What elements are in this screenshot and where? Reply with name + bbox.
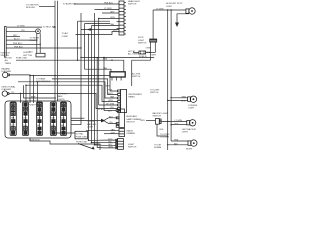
wire backup lamp return: [170, 124, 186, 126]
wire GRY stub: [7, 35, 21, 37]
node label TO LIGHT SWITCH: [150, 89, 160, 94]
node label TO BLWR SW: [63, 3, 76, 5]
wire stop switch right leg: [154, 43, 156, 53]
svg-text:TAN: TAN: [110, 23, 115, 26]
wire below fuse box step: [30, 138, 100, 150]
wire fuse box right exit 2 to splice: [71, 120, 101, 122]
svg-text:PNK: PNK: [108, 90, 113, 92]
svg-text:LT GRN: LT GRN: [104, 8, 112, 10]
svg-text:15A: 15A: [61, 116, 65, 119]
wire BRN to light switch pin 1: [88, 139, 118, 141]
svg-text:LT GRN: LT GRN: [156, 9, 164, 11]
wire stub pin E: [78, 20, 120, 23]
svg-text:SWITCH: SWITCH: [132, 76, 141, 78]
radio connector: [119, 129, 136, 137]
fuse block outline: [5, 101, 71, 141]
wire drop into fusebox d: [33, 75, 34, 103]
node label TO HORN RELAY: [30, 37, 40, 42]
wire GRN to instrument top: [105, 86, 110, 88]
svg-text:BLK: BLK: [175, 124, 180, 126]
wire bus drop x88.5: [88, 35, 90, 141]
svg-text:RELAY: RELAY: [30, 39, 37, 42]
fuse F1 column: [10, 102, 16, 136]
fuse F2 column: [22, 102, 28, 136]
wire ACCY: [7, 38, 37, 41]
wire ORN to light switch pin 4: [97, 57, 118, 149]
svg-text:ORN: ORN: [108, 100, 113, 102]
ground G401: [175, 23, 179, 28]
wire lamp ground lead: [177, 14, 189, 23]
wire fuse link feed: [16, 57, 124, 71]
svg-text:COMP: COMP: [62, 36, 69, 38]
wire license lamp feed: [170, 96, 187, 98]
svg-text:FUSE PNL: FUSE PNL: [29, 104, 40, 106]
wire fuse feed: [133, 51, 139, 53]
wire ORN to backup switch: [140, 120, 156, 122]
svg-text:10A: 10A: [23, 124, 27, 127]
svg-text:BLK: BLK: [108, 111, 113, 113]
svg-text:BACKUP LIGHT: BACKUP LIGHT: [153, 112, 169, 115]
wire GRY to pin C: [102, 12, 119, 14]
wire backup switch bottom lead: [157, 124, 168, 136]
wire splice to aux pin 2: [105, 116, 118, 120]
wire stop output row: [132, 59, 151, 61]
svg-text:SIDE MARKER: SIDE MARKER: [36, 80, 51, 83]
node label TO REAR SIDE MARKER: [36, 77, 51, 83]
svg-text:LT GRN: LT GRN: [175, 120, 183, 122]
hazard flasher: [2, 72, 9, 77]
wire PPL to pin J: [76, 30, 120, 35]
svg-text:SWITCH: SWITCH: [126, 121, 135, 123]
svg-text:SWITCH: SWITCH: [128, 146, 137, 148]
svg-text:ORN: ORN: [140, 120, 145, 122]
wire stub pin F: [85, 24, 120, 29]
wire continuation to bus: [53, 26, 56, 27]
svg-text:LEFT BACKUP: LEFT BACKUP: [182, 128, 197, 131]
wire hazard flasher output: [9, 75, 30, 76]
svg-text:TAN: TAN: [103, 67, 108, 70]
wire hot feed row: [80, 56, 154, 58]
wire fuse to stop switch: [146, 51, 156, 53]
wire backup switch to left backup lamp: [161, 120, 187, 122]
svg-text:TLP: TLP: [11, 125, 15, 127]
svg-text:ORN: ORN: [108, 147, 113, 149]
svg-text:DIRECTIONAL: DIRECTIONAL: [2, 86, 17, 89]
svg-text:HOT AT: HOT AT: [5, 57, 13, 60]
wire LT GRN to hdlt sw: [7, 26, 43, 28]
node label HOT AT ALL TIMES right: [128, 50, 139, 56]
headlight switch connector C201: [119, 0, 141, 35]
node label TO STEERING: [160, 134, 170, 139]
svg-text:SIGNAL: SIGNAL: [154, 146, 162, 149]
inline connector symbol: [88, 28, 92, 31]
svg-text:RIGHT: RIGHT: [186, 149, 193, 150]
svg-text:SWITCH: SWITCH: [128, 4, 137, 6]
wire horn ring drop left: [36, 33, 37, 53]
directional flasher: [2, 91, 9, 96]
fuse STOP HAZ 20A: [139, 51, 151, 54]
svg-text:RADIO: RADIO: [127, 129, 134, 132]
wire heater feed row: [77, 59, 108, 61]
svg-text:ALL TIMES: ALL TIMES: [128, 52, 139, 55]
svg-text:FLASHER: FLASHER: [2, 88, 12, 91]
svg-text:TO BLWR SW: TO BLWR SW: [63, 3, 76, 5]
svg-text:LIGHT: LIGHT: [87, 127, 94, 129]
wire YEL to light switch pin 2: [91, 142, 118, 144]
lamp license light: [188, 96, 198, 109]
backup light switch: [153, 112, 169, 124]
junction block TO TAIL LPS: [75, 131, 88, 139]
svg-text:TO TAIL: TO TAIL: [76, 133, 84, 136]
svg-text:WHT: WHT: [152, 54, 157, 56]
wire row 2 to instrument: [52, 79, 118, 95]
svg-text:FUSE LINK: FUSE LINK: [76, 141, 87, 143]
svg-text:HAZARD: HAZARD: [2, 67, 11, 70]
node label HAZARD FLASHER: [2, 67, 12, 73]
wire LT BLU to aux pin 1: [98, 109, 116, 111]
svg-text:MODULE: MODULE: [26, 7, 36, 9]
wire with inline connector to pin H: [81, 29, 119, 31]
svg-text:TO A/C: TO A/C: [62, 32, 69, 35]
wire bus drop x81 full: [71, 13, 81, 125]
wire instrument pin 7: [99, 104, 118, 106]
node label TO DIR SIGNAL: [154, 145, 162, 150]
wire GRY to light switch pin 3: [94, 144, 118, 146]
svg-text:BLK: BLK: [109, 116, 114, 118]
fuse F5 column: [60, 102, 66, 136]
svg-text:GRN: GRN: [181, 96, 186, 98]
fuse F4 column: [50, 102, 56, 136]
wire stop output drop left: [131, 60, 133, 86]
svg-text:LIGHT: LIGHT: [188, 107, 195, 109]
svg-text:DIMMER: DIMMER: [127, 133, 136, 135]
svg-text:25A: 25A: [23, 116, 27, 119]
wire ORN to pin D: [98, 17, 119, 19]
wire fuse to junction block: [55, 132, 75, 134]
svg-text:LIGHT: LIGHT: [166, 6, 173, 8]
ignition switch connector: [1, 27, 11, 58]
svg-text:PNK BLU: PNK BLU: [13, 43, 22, 45]
svg-text:SWITCH: SWITCH: [153, 115, 162, 117]
svg-text:ORN: ORN: [110, 17, 115, 19]
wire bus drop x91.5: [91, 26, 93, 143]
svg-text:BLK: BLK: [181, 100, 186, 102]
svg-text:PNK BLK: PNK BLK: [14, 47, 23, 49]
lamp high mount stop light: [186, 8, 195, 14]
svg-text:MARKER: MARKER: [87, 123, 96, 126]
wire BRN row: [24, 85, 56, 98]
wire LT GRN to pin B: [95, 8, 120, 10]
node label HIGH MOUNT STOP: [166, 3, 183, 8]
svg-text:BLK: BLK: [174, 143, 179, 145]
svg-text:LIGHTS: LIGHTS: [57, 99, 65, 101]
wire battery feed arrow: [76, 141, 95, 149]
svg-text:A/C HTR: A/C HTR: [132, 72, 141, 75]
wire to high mount lamp: [153, 9, 186, 11]
wire drop into fusebox e: [37, 81, 38, 103]
node label TO HDLT SW: [43, 27, 56, 29]
svg-text:DK GRN: DK GRN: [106, 104, 115, 106]
lamp right backup light: [186, 140, 197, 151]
svg-text:FUSE JUNC: FUSE JUNC: [76, 136, 88, 138]
instrument panel connector: [118, 89, 143, 112]
wire PNK BLK to headlight switch pin A: [74, 3, 119, 5]
heater A/C switch: [110, 72, 141, 81]
svg-text:PNK: PNK: [103, 59, 108, 61]
svg-text:TIMES: TIMES: [5, 63, 12, 65]
lamp left backup light: [182, 120, 197, 134]
wire PNK BLU: [7, 43, 41, 45]
aux lamp dimmer switch connector: [116, 109, 141, 128]
stop light switch: [138, 37, 157, 44]
svg-text:PANEL: PANEL: [128, 96, 136, 99]
wire GRY to radio pin 2: [104, 132, 119, 134]
node label TO A/C COMP: [62, 32, 69, 38]
svg-text:PNK BLK: PNK BLK: [104, 3, 113, 5]
wire row 3 to instrument: [18, 81, 118, 98]
svg-text:TAN: TAN: [111, 128, 116, 131]
wire from TO COMPUTER label to vertical bus: [39, 6, 55, 8]
wire PNK BLK long: [7, 47, 82, 49]
svg-text:BLK: BLK: [29, 52, 34, 54]
wire drop into fusebox c: [29, 76, 31, 103]
wire horn ring drop right: [40, 33, 41, 53]
svg-text:GRN: GRN: [105, 86, 110, 88]
svg-text:SWITCH: SWITCH: [138, 42, 147, 44]
node label TO LEFT MARKER LIGHT: [87, 121, 96, 129]
svg-text:WHT: WHT: [108, 93, 113, 95]
wire long vertical right A: [167, 9, 168, 150]
wire bus drop x94.5: [94, 13, 95, 145]
svg-text:GRY: GRY: [13, 35, 18, 37]
svg-text:AUXILIARY: AUXILIARY: [126, 115, 137, 118]
svg-text:LT GRN: LT GRN: [17, 26, 25, 28]
wire right backup lamp return: [167, 143, 188, 145]
svg-text:TO LEFT: TO LEFT: [87, 121, 96, 123]
wire vertical bus line 1: [54, 1, 56, 101]
svg-text:20A: 20A: [37, 116, 41, 119]
wire long vertical right B: [170, 9, 171, 141]
svg-text:LIGHT: LIGHT: [182, 132, 189, 134]
wire vertical from lamp feed down to stop light switch: [152, 10, 154, 39]
horn button: [23, 52, 45, 57]
wire hazard row to instrument corner: [30, 75, 118, 91]
svg-text:GRY: GRY: [111, 132, 116, 134]
wire stop switch left leg ORN: [146, 43, 157, 61]
wire labels instrument pins: [108, 90, 115, 113]
svg-text:PARK: PARK: [57, 95, 63, 98]
wire drop into fusebox b: [25, 85, 27, 103]
node label HOT AT ALL TIMES left: [5, 57, 13, 65]
svg-text:SWITCH: SWITCH: [150, 92, 159, 94]
svg-text:GRY: GRY: [110, 12, 115, 14]
svg-text:TO REAR: TO REAR: [36, 77, 46, 80]
wire directional flasher output: [9, 92, 118, 109]
node label DIRECTIONAL FLASHER: [2, 86, 17, 92]
svg-text:ACCY: ACCY: [14, 38, 20, 41]
wire fuse box right exit 1: [71, 117, 85, 119]
wire license lamp return: [167, 100, 188, 103]
wire bus drop x104: [103, 57, 104, 111]
wire right backup lamp feed: [171, 140, 188, 142]
wire drop into fusebox a: [20, 93, 22, 103]
svg-text:FUSE LINK: FUSE LINK: [16, 57, 27, 59]
wire TAN to pin G: [92, 23, 120, 26]
wire heater row 2: [85, 67, 112, 72]
horn contact ring: [36, 29, 41, 34]
wire TAN to radio pin 1: [86, 128, 119, 131]
svg-text:25A: 25A: [51, 116, 55, 119]
fuse F3 column: [36, 102, 42, 136]
wire splice to aux pin 3: [105, 121, 118, 124]
svg-text:20A: 20A: [11, 116, 15, 119]
light switch connector: [116, 139, 137, 150]
node label TO COMPUTER: [26, 5, 39, 10]
svg-text:ORN: ORN: [146, 48, 151, 50]
wire vertical bus line 2: [57, 1, 59, 101]
wire bus drop x77.5 to heater feed: [77, 21, 79, 60]
svg-text:PNK: PNK: [174, 140, 179, 142]
svg-text:LT BLU: LT BLU: [98, 109, 105, 111]
svg-text:TAN: TAN: [110, 96, 115, 99]
wire YEL to horn contact ring: [7, 30, 36, 32]
svg-text:BLK: BLK: [160, 129, 165, 131]
wire bus drop x98.7: [98, 18, 100, 105]
wire row 4 to instrument: [25, 85, 117, 102]
wire bus drop x84.5: [84, 24, 86, 70]
node label TO FRONT PARK LTS: [57, 94, 68, 101]
splice arrow S1: [101, 119, 106, 123]
svg-text:FUSE B: FUSE B: [139, 56, 147, 58]
svg-text:10A: 10A: [51, 124, 55, 127]
svg-text:COLUMN: COLUMN: [160, 136, 170, 138]
